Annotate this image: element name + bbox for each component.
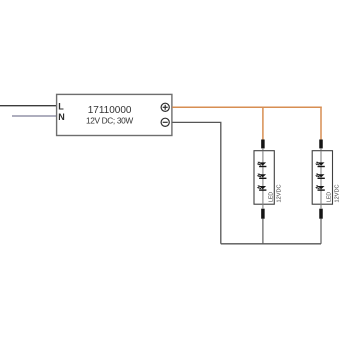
wire connector to E2 top <box>320 148 322 151</box>
svg-text:LED: LED <box>327 192 333 202</box>
svg-text:12V DC; 30W: 12V DC; 30W <box>86 116 133 126</box>
wire E2 to 0V bus <box>320 219 322 244</box>
wire +12V drop to LED module E2 (orange) <box>320 107 322 141</box>
LED module E1 outline <box>254 151 274 205</box>
LED D1 of E2 <box>315 162 325 167</box>
wire +12V drop to LED module E1 (orange) <box>262 107 264 140</box>
connector bottom of LED module E1 <box>261 209 265 219</box>
terminal + (positive output) <box>161 103 169 111</box>
wire 0V from - terminal <box>172 122 221 243</box>
svg-text:L: L <box>58 101 64 111</box>
wire connector to E1 top <box>262 148 264 151</box>
svg-text:12VDC: 12VDC <box>277 184 283 202</box>
wire N (neutral input) <box>12 115 57 117</box>
LED D1 of E1 <box>257 162 267 167</box>
wire +12V horizontal (orange) <box>172 106 322 108</box>
LED D2 of E2 <box>315 174 325 179</box>
connector top of LED module E2 <box>319 140 323 149</box>
wire E1 to 0V bus <box>262 219 264 244</box>
svg-text:N: N <box>58 112 65 122</box>
wire E1 bottom gap <box>262 204 264 209</box>
LED module E2 outline <box>312 151 332 205</box>
connector bottom of LED module E2 <box>319 209 323 219</box>
terminal - (negative output) <box>161 118 169 126</box>
wire E2 bottom gap <box>320 204 322 209</box>
svg-text:12VDC: 12VDC <box>335 184 340 202</box>
power supply driver U1 <box>57 94 172 135</box>
LED module E2 internal wire <box>320 151 322 205</box>
LED D3 of E1 <box>257 185 267 190</box>
svg-text:17110000: 17110000 <box>88 105 132 116</box>
LED D3 of E2 <box>315 185 325 190</box>
svg-text:LED: LED <box>268 192 274 202</box>
wire 0V return bus <box>221 243 321 245</box>
wire L (line input) <box>0 105 57 107</box>
connector top of LED module E1 <box>261 140 265 149</box>
LED D2 of E1 <box>257 174 267 179</box>
LED module E1 internal wire <box>262 151 264 205</box>
